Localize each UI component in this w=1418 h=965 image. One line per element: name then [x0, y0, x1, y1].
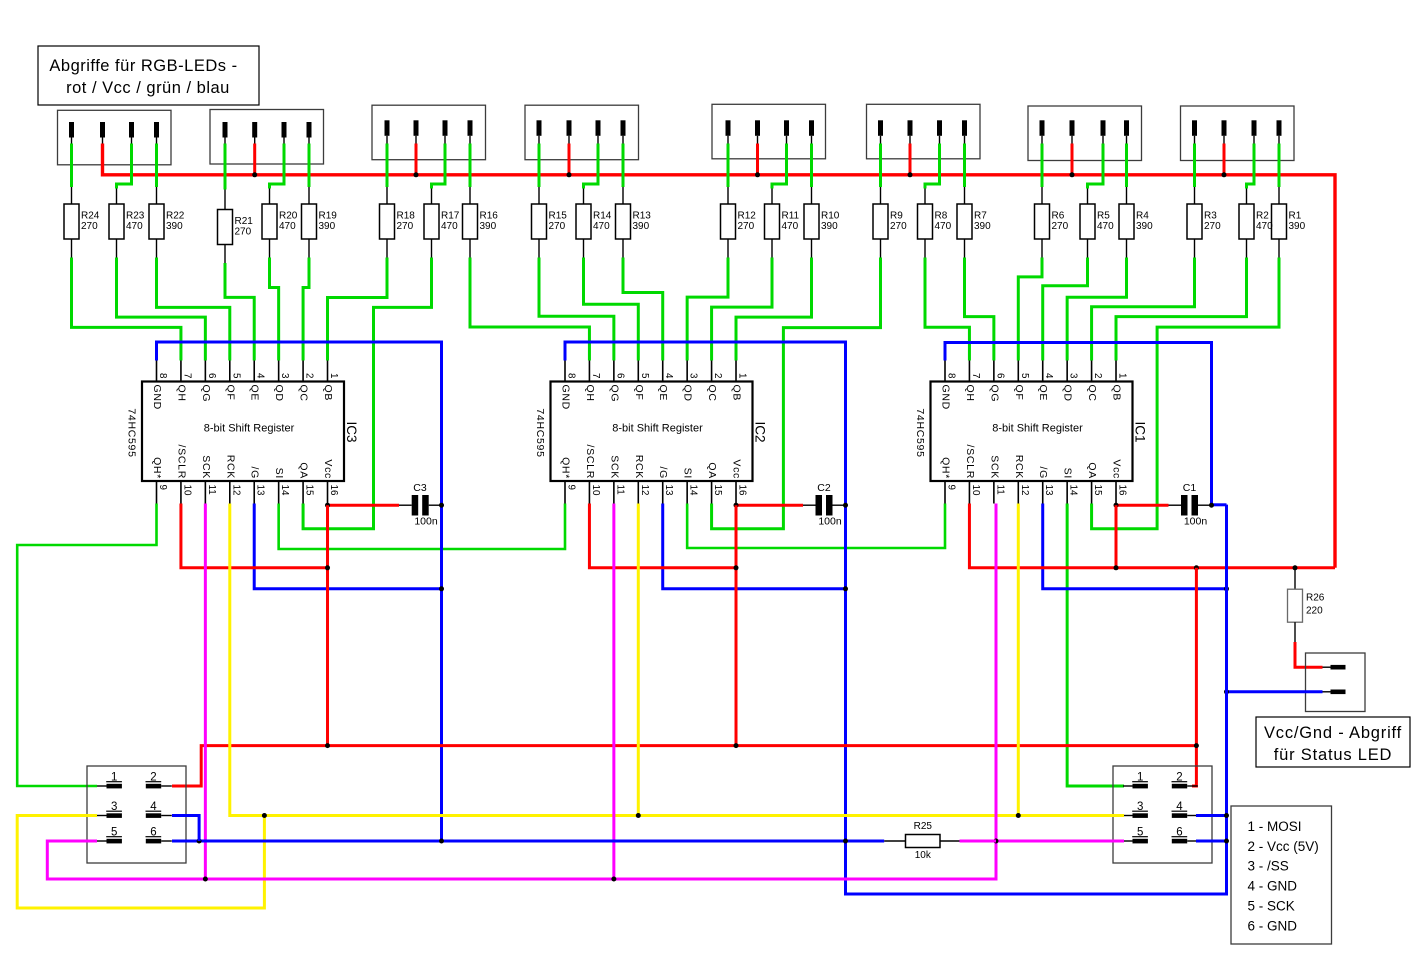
wire IC3 /G pin13 to GND (blue): [254, 504, 441, 589]
svg-text:RCK: RCK: [633, 455, 645, 479]
svg-text:3: 3: [279, 373, 290, 379]
svg-text:220: 220: [1306, 606, 1323, 617]
RGB LED header J1: [58, 110, 172, 165]
svg-text:R19: R19: [319, 211, 338, 222]
svg-text:470: 470: [441, 221, 458, 232]
wire R23 to IC3 (green): [117, 258, 206, 361]
svg-text:470: 470: [126, 221, 143, 232]
svg-text:Vcc/Gnd - Abgriff: Vcc/Gnd - Abgriff: [1264, 724, 1402, 742]
wire R24 to IC3 (green): [72, 258, 181, 361]
svg-text:3: 3: [688, 373, 699, 379]
svg-text:QE: QE: [1037, 385, 1049, 402]
wire R9 to IC2 QA (green): [712, 258, 881, 529]
wire lead below R5: [1087, 239, 1089, 258]
svg-text:6: 6: [614, 373, 625, 379]
wire IC1 QH* to IC2 SI (green): [687, 504, 945, 549]
svg-text:7: 7: [590, 373, 601, 378]
resistor R8 470: [918, 204, 952, 239]
wire IC2 QH* to IC3 SI (green): [279, 504, 565, 550]
svg-text:15: 15: [712, 485, 723, 496]
svg-text:QF: QF: [224, 385, 236, 401]
junction VCC bus / J3 pin2: [414, 172, 419, 177]
svg-text:2: 2: [304, 373, 315, 378]
resistor R7 390: [957, 204, 991, 239]
svg-text:390: 390: [1289, 221, 1306, 232]
svg-text:270: 270: [738, 221, 755, 232]
svg-text:270: 270: [1052, 221, 1069, 232]
wire from header to R3 (green): [1193, 144, 1196, 188]
wire C2 to GND (black lead): [833, 504, 846, 506]
wire SCK IC2 drop (magenta): [612, 504, 615, 880]
svg-text:QA: QA: [1086, 462, 1098, 479]
svg-text:QE: QE: [657, 385, 669, 402]
resistor R10 390: [804, 204, 840, 239]
svg-text:IC1: IC1: [1133, 421, 1148, 442]
wire R22 to IC3 (green): [157, 258, 230, 361]
svg-text:SCK: SCK: [988, 455, 1000, 479]
svg-text:IC3: IC3: [344, 421, 359, 442]
wire MOSI J10 pin1 to IC1 SI (green): [1067, 504, 1124, 787]
svg-text:QC: QC: [1086, 385, 1098, 402]
svg-text:4: 4: [1176, 801, 1183, 813]
wire Vcc to C2 (red): [736, 504, 803, 507]
svg-text:9: 9: [157, 485, 168, 490]
svg-text:QE: QE: [249, 385, 261, 402]
wire J10 pin4 to GND (blue): [1196, 814, 1227, 817]
svg-text:R22: R22: [166, 211, 185, 222]
resistor R6 270: [1035, 204, 1069, 239]
svg-text:390: 390: [166, 221, 183, 232]
wire R16 to IC2 (green): [470, 258, 589, 361]
svg-text:R5: R5: [1097, 211, 1110, 222]
wire R21 to IC3 (green): [225, 263, 254, 361]
svg-text:QA: QA: [706, 462, 718, 479]
junction VCC bus / J4 pin2: [567, 172, 572, 177]
junction Vcc at R26: [1293, 565, 1298, 570]
wire R14 to IC2 (green): [584, 258, 639, 361]
svg-text:1: 1: [328, 373, 339, 378]
svg-text:QH*: QH*: [940, 457, 952, 479]
resistor R18 270: [380, 204, 416, 239]
resistor R19 390: [302, 204, 338, 239]
svg-text:C2: C2: [817, 482, 831, 494]
wire from header to R2 (green): [1247, 144, 1255, 189]
wire R12 to IC2 (green): [687, 258, 728, 361]
svg-text:SI: SI: [1062, 468, 1074, 479]
svg-text:Vcc: Vcc: [1111, 459, 1123, 479]
wire lead below R20: [269, 239, 271, 258]
resistor R2 470: [1239, 204, 1273, 239]
resistor R12 270: [721, 204, 757, 239]
wire R18 to IC3 (green): [328, 258, 387, 361]
wire lead below R12: [727, 239, 729, 258]
svg-text:12: 12: [230, 485, 241, 496]
svg-text:/G: /G: [657, 467, 669, 480]
wire lead below R7: [964, 239, 966, 258]
svg-text:390: 390: [821, 221, 838, 232]
resistor R13 390: [616, 204, 652, 239]
wire Vcc lower rail (red): [172, 746, 1196, 786]
wire from header to R4 (green): [1125, 144, 1128, 188]
svg-text:2 - Vcc (5V): 2 - Vcc (5V): [1248, 839, 1319, 854]
RGB LED header J6: [867, 104, 981, 159]
wire from header to R7 (green): [963, 144, 966, 188]
svg-text:R16: R16: [480, 211, 499, 222]
wire from header to R15 (green): [538, 144, 541, 188]
wire from header to R5 (green): [1088, 144, 1104, 189]
svg-text:8: 8: [946, 373, 957, 379]
svg-text:QH: QH: [175, 385, 187, 402]
svg-text:RCK: RCK: [1013, 455, 1025, 479]
wire lead below R3: [1194, 239, 1196, 258]
svg-text:für Status LED: für Status LED: [1274, 746, 1393, 764]
svg-text:5: 5: [111, 827, 117, 839]
svg-text:/G: /G: [1037, 467, 1049, 480]
wire Vcc to C3 (red): [328, 504, 399, 507]
wire VCC drop from J2 pin2: [253, 144, 256, 175]
junction VCC bus / J8 pin2: [1222, 172, 1227, 177]
junction GND at C3 right: [439, 503, 444, 508]
wire IC1 /SCLR pin10 to Vcc rail (red): [969, 504, 1335, 568]
junction GND IC2 /G: [843, 586, 848, 591]
junction VCC bus / J7 pin2: [1070, 172, 1075, 177]
wire lead below R18: [386, 239, 388, 258]
svg-text:5 - SCK: 5 - SCK: [1248, 898, 1295, 913]
svg-text:/G: /G: [249, 467, 261, 480]
resistor R3 270: [1187, 204, 1221, 239]
svg-text:QF: QF: [1013, 385, 1025, 401]
wire R15 to IC2 (green): [539, 258, 614, 361]
wire from header to R1 (green): [1278, 144, 1281, 188]
wire IC1 RCK drop (yellow): [1017, 504, 1020, 816]
svg-text:3: 3: [1068, 373, 1079, 379]
resistor R11 470: [765, 204, 800, 239]
svg-text:/SCLR: /SCLR: [175, 445, 187, 479]
wire R20 to IC3 (green): [270, 258, 279, 361]
wire Vcc IC3 pin16 down (red): [326, 505, 329, 745]
svg-text:12: 12: [639, 485, 650, 496]
wire lead below R8: [924, 239, 926, 258]
wire from header to R22 (green): [155, 144, 158, 188]
junction Vcc feed to J10 pin2: [1194, 565, 1199, 570]
svg-text:R26: R26: [1306, 593, 1325, 604]
resistor R24 270: [64, 204, 100, 239]
svg-text:14: 14: [1068, 485, 1079, 496]
resistor R22 390: [149, 204, 185, 239]
wire R7 to IC1 (green): [965, 258, 994, 361]
wire Vcc IC1 pin16 down (red): [1115, 505, 1118, 568]
svg-text:/SCLR: /SCLR: [584, 445, 596, 479]
svg-text:QG: QG: [608, 385, 620, 403]
svg-text:470: 470: [1097, 221, 1114, 232]
svg-text:1: 1: [1137, 772, 1143, 784]
wire GND to status connector (blue): [1227, 690, 1323, 693]
wire IC2 RCK drop (yellow): [637, 504, 640, 816]
wire lead below R19: [308, 239, 310, 258]
svg-text:1: 1: [737, 373, 748, 378]
wire from header to R8 (green): [925, 144, 940, 189]
wire lead below R2: [1246, 239, 1248, 258]
junction Vcc at C2 left: [734, 503, 739, 508]
svg-text:74HC595: 74HC595: [126, 408, 138, 457]
svg-text:5: 5: [1137, 827, 1143, 839]
svg-text:QD: QD: [682, 385, 694, 402]
svg-text:R9: R9: [890, 211, 903, 222]
svg-text:15: 15: [304, 485, 315, 496]
junction RCK IC1: [1016, 813, 1021, 818]
wire from header to R23 (green): [117, 144, 132, 189]
svg-text:4: 4: [663, 373, 674, 379]
svg-text:R17: R17: [441, 211, 460, 222]
svg-text:13: 13: [1043, 485, 1054, 496]
svg-text:270: 270: [549, 221, 566, 232]
svg-text:1 - MOSI: 1 - MOSI: [1248, 819, 1302, 834]
junction GND J11 pin4: [197, 839, 202, 844]
wire from header to R11 (green): [772, 144, 787, 189]
svg-text:14: 14: [688, 485, 699, 496]
wire R25 to SCK (magenta): [960, 840, 997, 843]
svg-text:470: 470: [782, 221, 799, 232]
svg-text:100n: 100n: [414, 516, 438, 528]
svg-text:5: 5: [639, 373, 650, 379]
svg-text:R14: R14: [593, 211, 612, 222]
svg-text:6: 6: [994, 373, 1005, 379]
svg-text:74HC595: 74HC595: [914, 408, 926, 457]
note box: Abgriffe fuer RGB-LEDs: [38, 46, 259, 105]
resistor R4 390: [1119, 204, 1153, 239]
wire from header to R19 (green): [308, 144, 311, 188]
svg-text:10: 10: [590, 485, 601, 496]
junction Vcc IC1 pin16: [1114, 565, 1119, 570]
svg-text:16: 16: [328, 485, 339, 496]
svg-text:SCK: SCK: [200, 455, 212, 479]
wire R1 to IC1 QA (green): [1092, 258, 1279, 529]
svg-text:270: 270: [397, 221, 414, 232]
svg-text:R8: R8: [935, 211, 948, 222]
note box: J10 pinout legend: [1231, 806, 1332, 944]
wire from header to R21 (green): [224, 144, 227, 190]
wire R2 to IC1 (green): [1116, 258, 1246, 361]
svg-text:470: 470: [279, 221, 296, 232]
junction GND bus / IC2 vertical: [843, 839, 848, 844]
svg-text:QH*: QH*: [560, 457, 572, 479]
wire from header to R13 (green): [622, 144, 625, 188]
wire R3 to IC1 (green): [1092, 258, 1195, 361]
wire GND IC3 pin8 loop (blue): [157, 342, 442, 841]
svg-text:QH: QH: [964, 385, 976, 402]
wire lead below R10: [811, 239, 813, 258]
wire Vcc to R26 (black lead): [1294, 568, 1296, 589]
wire from header to R24 (green): [70, 144, 73, 188]
svg-text:8: 8: [157, 373, 168, 379]
wire GND bus to R25 (blue): [172, 840, 884, 843]
svg-text:390: 390: [1136, 221, 1153, 232]
svg-text:11: 11: [614, 485, 625, 495]
op IC IC2 74HC595 8-bit shift register: [534, 361, 768, 504]
svg-text:470: 470: [1256, 221, 1273, 232]
wire SCK to J10 pin5 (magenta): [996, 840, 1124, 843]
svg-text:rot / Vcc / grün / blau: rot / Vcc / grün / blau: [66, 79, 230, 97]
wire lead below R1: [1278, 239, 1280, 258]
svg-text:74HC595: 74HC595: [534, 408, 546, 457]
svg-text:SCK: SCK: [608, 455, 620, 479]
svg-text:11: 11: [206, 485, 217, 495]
wire GND IC1 pin8 loop (blue): [945, 343, 1212, 505]
svg-text:QC: QC: [298, 385, 310, 402]
wire lead below R24: [71, 239, 73, 258]
svg-text:11: 11: [994, 485, 1005, 495]
svg-text:390: 390: [633, 221, 650, 232]
svg-text:14: 14: [279, 485, 290, 496]
resistor R17 470: [424, 204, 460, 239]
svg-text:270: 270: [1204, 221, 1221, 232]
op IC IC1 74HC595 8-bit shift register: [914, 361, 1148, 504]
wire SCK magenta bus: [47, 504, 996, 880]
svg-text:QD: QD: [273, 385, 285, 402]
wire R13 to IC2 (green): [623, 258, 663, 361]
svg-text:8-bit Shift Register: 8-bit Shift Register: [204, 423, 295, 435]
svg-text:R11: R11: [782, 211, 800, 222]
wire C1 to GND (black lead): [1198, 504, 1212, 506]
svg-text:16: 16: [737, 485, 748, 496]
svg-text:13: 13: [255, 485, 266, 496]
junction VCC bus / J6 pin2: [908, 172, 913, 177]
svg-text:390: 390: [974, 221, 991, 232]
connector J9 Vcc/Gnd for status LED: [1306, 653, 1366, 712]
wire VCC drop from J3 pin2: [415, 144, 418, 175]
resistor R26 220: [1288, 589, 1325, 622]
wire R4 to IC1 (green): [1067, 258, 1126, 361]
wire R17 to IC3 QA (green): [303, 258, 431, 529]
svg-text:R21: R21: [235, 216, 254, 227]
svg-text:270: 270: [890, 221, 907, 232]
svg-text:16: 16: [1117, 485, 1128, 496]
svg-text:10: 10: [970, 485, 981, 496]
resistor R14 470: [576, 204, 612, 239]
wire VCC drop from J6 pin2: [909, 144, 912, 175]
svg-text:QG: QG: [988, 385, 1000, 403]
junction GND at C2 right: [843, 503, 848, 508]
svg-text:4: 4: [1043, 373, 1054, 379]
wire from header to R12 (green): [727, 144, 730, 188]
wire IC3 /SCLR pin10 to Vcc (red): [181, 504, 328, 568]
wire GND jog at C1 (blue): [1212, 503, 1227, 506]
svg-text:GND: GND: [151, 385, 163, 410]
wire R6 to IC1 (green): [1018, 258, 1042, 361]
wire VCC drop from J5 pin2: [756, 144, 759, 175]
svg-text:6 - GND: 6 - GND: [1248, 918, 1298, 933]
junction RCK IC2: [636, 813, 641, 818]
junction Vcc IC3: [325, 565, 330, 570]
wire J11 pin4 to GND (blue): [172, 816, 199, 842]
svg-text:Vcc: Vcc: [731, 459, 743, 479]
resistor R1 390: [1272, 204, 1306, 239]
junction VCC bus / J5 pin2: [755, 172, 760, 177]
resistor R20 470: [262, 204, 298, 239]
wire SCK IC3 drop (magenta): [204, 504, 207, 880]
capacitor C3 100n: [412, 482, 438, 528]
op IC IC3 74HC595 8-bit shift register: [126, 361, 360, 504]
resistor R9 270: [873, 204, 907, 239]
RGB LED header J4: [525, 105, 639, 160]
svg-text:10: 10: [181, 485, 192, 496]
wire lead below R16: [469, 239, 471, 258]
svg-text:100n: 100n: [1184, 516, 1208, 528]
svg-text:QB: QB: [322, 385, 334, 402]
svg-text:470: 470: [593, 221, 610, 232]
svg-text:Abgriffe für RGB-LEDs -: Abgriffe für RGB-LEDs -: [49, 57, 237, 75]
svg-text:6: 6: [150, 827, 156, 839]
svg-text:390: 390: [480, 221, 497, 232]
svg-text:8-bit Shift Register: 8-bit Shift Register: [992, 423, 1083, 435]
svg-text:GND: GND: [940, 385, 952, 410]
capacitor C1 100n: [1181, 482, 1207, 528]
svg-text:1: 1: [111, 772, 117, 784]
wire VCC bus (red) from J1 pin2 across top and down right side: [103, 144, 1336, 568]
junction GND J10 pin6: [1224, 839, 1229, 844]
svg-text:2: 2: [1176, 772, 1182, 784]
wire from header to R17 (green): [432, 144, 446, 189]
svg-text:2: 2: [1092, 373, 1103, 378]
wire J10 pin6 to GND (blue): [1196, 840, 1227, 843]
junction GND J10 pin4: [1224, 813, 1229, 818]
wire Vcc feed to J10 pin2 (red): [1192, 568, 1196, 786]
resistor R21 270: [218, 210, 254, 245]
junction Vcc at C1 left: [1114, 503, 1119, 508]
connector J10 (SPI in) 6-pin header: [1113, 766, 1212, 863]
svg-text:3: 3: [1137, 801, 1143, 813]
wire lead below R15: [538, 239, 540, 258]
wire from header to R10 (green): [810, 144, 813, 188]
wire R26 to status connector (lead + red): [1294, 622, 1296, 642]
svg-text:R7: R7: [974, 211, 987, 222]
RGB LED header J8: [1181, 106, 1295, 161]
svg-text:IC2: IC2: [753, 421, 768, 442]
svg-text:9: 9: [946, 485, 957, 490]
svg-text:R15: R15: [549, 211, 568, 222]
svg-text:3 - /SS: 3 - /SS: [1248, 859, 1289, 874]
svg-text:QD: QD: [1062, 385, 1074, 402]
wire lead below R9: [880, 239, 882, 258]
svg-text:R4: R4: [1136, 211, 1149, 222]
svg-text:10k: 10k: [915, 850, 932, 861]
svg-text:QB: QB: [731, 385, 743, 402]
svg-text:R1: R1: [1289, 211, 1302, 222]
svg-text:QH: QH: [584, 385, 596, 402]
svg-text:1: 1: [1117, 373, 1128, 378]
svg-text:5: 5: [230, 373, 241, 379]
svg-text:13: 13: [663, 485, 674, 496]
junction RCK loop: [262, 813, 267, 818]
svg-text:/SCLR: /SCLR: [964, 445, 976, 479]
wire lead below R11: [771, 239, 773, 258]
junction VCC bus / J2 pin2: [252, 172, 257, 177]
junction Vcc rail / IC3: [325, 743, 330, 748]
junction GND / status connector: [1224, 689, 1229, 694]
wire IC2 /G pin13 to GND (blue): [663, 504, 846, 589]
wire R10 to IC2 (green): [736, 258, 811, 361]
wire C3 to GND (black lead): [429, 504, 442, 506]
wire lead below R21: [224, 245, 226, 264]
wire IC2 /SCLR pin10 to Vcc (red): [589, 504, 736, 568]
resistor R5 470: [1080, 204, 1114, 239]
wire Vcc IC2 pin16 down (red): [735, 505, 738, 745]
RGB LED header J5: [712, 104, 826, 159]
svg-text:R25: R25: [914, 821, 933, 832]
resistor R23 470: [109, 204, 145, 239]
svg-text:R3: R3: [1204, 211, 1217, 222]
wire RCK loop to J11 pin3 (yellow): [17, 816, 264, 909]
